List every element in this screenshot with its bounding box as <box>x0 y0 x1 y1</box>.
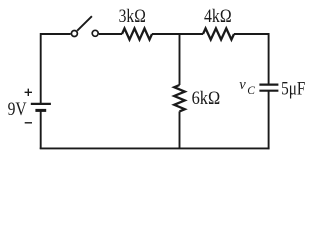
svg-text:5μF: 5μF <box>281 78 305 99</box>
switch SW1 blade <box>77 16 92 31</box>
wire bottom <box>40 147 270 149</box>
svg-text:3kΩ: 3kΩ <box>119 6 146 27</box>
capacitor C1 top plate <box>259 83 278 85</box>
resistor R2 4k zigzag <box>203 28 234 39</box>
svg-text:6kΩ: 6kΩ <box>192 88 221 109</box>
wire switch to 3k resistor <box>99 33 122 35</box>
wire left vertical lower (battery to bottom) <box>40 110 42 149</box>
battery V1 short plate <box>35 109 46 112</box>
battery minus sign <box>25 122 32 124</box>
wire right vertical upper (top corner to capacitor) <box>268 33 270 85</box>
resistor R3 6k vertical zigzag <box>174 85 185 111</box>
wire right vertical lower (capacitor to bottom) <box>268 91 270 150</box>
battery plus sign <box>25 89 32 96</box>
wire middle branch lower (6k to bottom node) <box>179 111 181 149</box>
wire left vertical upper (corner to battery) <box>40 33 42 104</box>
svg-text:C: C <box>247 85 255 97</box>
wire 3k resistor to 4k resistor through node <box>152 33 203 35</box>
wire top-left from corner to switch <box>41 33 71 35</box>
svg-text:v: v <box>239 77 246 93</box>
wire middle branch upper (node to 6k) <box>179 34 181 85</box>
switch SW1 right contact <box>92 30 98 36</box>
battery V1 long plate <box>31 103 51 105</box>
resistor R1 3k zigzag <box>122 28 152 39</box>
wire 4k resistor to top-right corner <box>234 33 270 35</box>
capacitor C1 bottom plate <box>259 90 278 92</box>
svg-text:4kΩ: 4kΩ <box>204 6 232 27</box>
svg-text:9V: 9V <box>8 99 27 120</box>
switch SW1 left contact <box>71 31 77 37</box>
